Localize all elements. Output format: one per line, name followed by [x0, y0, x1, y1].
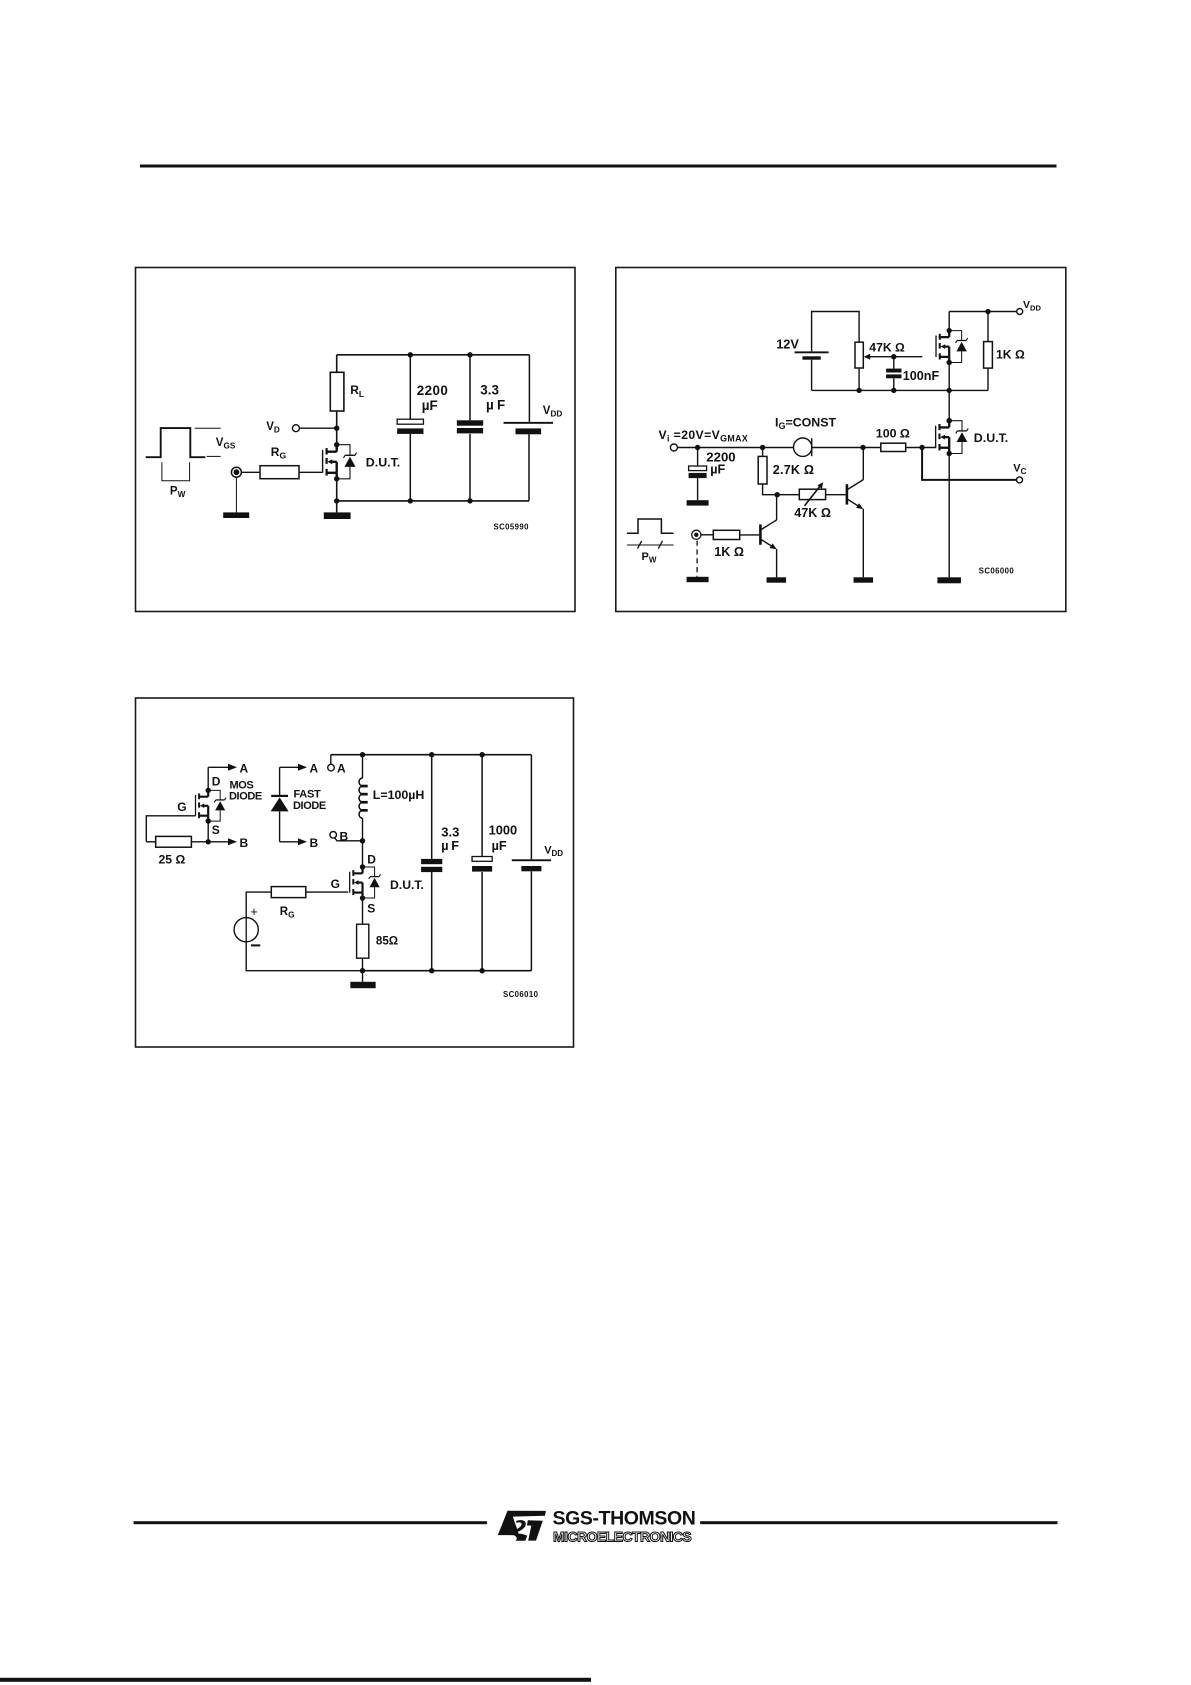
wire right NPN collector [862, 448, 864, 480]
wire A to top rail [330, 755, 332, 765]
ground at MOSFET source [324, 512, 351, 519]
wire 2200uF bottom [409, 434, 411, 501]
wire RL to top rail [336, 355, 338, 373]
svg-text:B: B [240, 836, 249, 850]
label SC06000 [979, 567, 1015, 576]
label G mos-diode [177, 800, 186, 814]
node top rail 1000uF [479, 752, 484, 757]
svg-text:1K Ω: 1K Ω [714, 545, 744, 559]
label PW [170, 486, 186, 500]
MOS diode terminal B arrow [208, 838, 237, 845]
logo text MICROELECTRONICS [553, 1528, 691, 1544]
svg-text:2200: 2200 [417, 383, 448, 398]
node bottom rail 3.3uF [467, 498, 472, 503]
svg-text:D: D [212, 774, 221, 788]
label DIODE fast [293, 800, 326, 812]
node lower drain [947, 418, 952, 423]
bottom return rail [337, 500, 529, 502]
label PW box2 [642, 551, 657, 565]
resistor 100 ohm R3 [881, 443, 906, 451]
label D.U.T. box2 [974, 431, 1008, 445]
terminal A main circuit [328, 764, 335, 771]
ground at right NPN emitter [854, 577, 874, 582]
label uF C2 [486, 398, 505, 413]
node bottom rail 3.3uF box3 [429, 968, 434, 973]
dashed wire connector to ground [696, 541, 698, 577]
node loop rail 100nF [891, 388, 896, 393]
svg-text:100nF: 100nF [903, 369, 940, 383]
svg-text:MICROELECTRONICS: MICROELECTRONICS [553, 1528, 691, 1544]
voltage source generator [234, 918, 258, 942]
resistor RL [330, 372, 344, 411]
svg-text:L=100µH: L=100µH [373, 788, 425, 802]
wire 2.7K top [762, 448, 764, 457]
svg-text:100 Ω: 100 Ω [876, 427, 910, 441]
MOSFET D.U.T. box3 [350, 864, 381, 900]
pulse level dashed marks [195, 428, 221, 456]
variable resistor 47K R5 [799, 482, 825, 506]
svg-text:12V: 12V [776, 336, 799, 351]
wire 2200uF-2 bottom [697, 478, 699, 500]
wire fast diode anode [279, 811, 281, 841]
terminal VD open circle [292, 425, 299, 432]
potentiometer 47K R1 [855, 342, 863, 368]
label D.U.T. [366, 455, 400, 469]
label D.U.T. box3 [390, 878, 424, 892]
label plus [250, 904, 258, 919]
ground at input connector [223, 512, 249, 518]
label A main [337, 762, 346, 776]
label VD [266, 421, 280, 435]
svg-text:1000: 1000 [489, 822, 517, 837]
label D mos-diode [212, 774, 221, 788]
label 47K ohm pot [869, 340, 905, 354]
wire VC tap [922, 448, 1016, 480]
terminal VC open circle [1017, 477, 1023, 483]
resistor 85 ohm [357, 924, 369, 958]
svg-text:SGS-THOMSON: SGS-THOMSON [553, 1508, 696, 1530]
transistor NPN Q4 right [847, 480, 863, 510]
capacitor 1000uF [472, 857, 492, 872]
wire connector to 1K [701, 534, 713, 536]
node bottom rail source [334, 498, 339, 503]
wire inductor bottom [362, 818, 364, 841]
figure box 3 frame (inductive switching circuit) [136, 698, 574, 1047]
wire 3.3uF top [469, 355, 471, 421]
label RG [271, 445, 287, 461]
label D main [367, 853, 376, 867]
svg-text:85Ω: 85Ω [376, 934, 398, 947]
label VDD box3 [544, 844, 563, 858]
capacitor 2200uF C1 [397, 419, 423, 434]
label VC [1013, 463, 1026, 477]
VDD rail [949, 311, 1017, 313]
svg-text:47K Ω: 47K Ω [869, 340, 905, 354]
ground box3 [350, 982, 375, 988]
node loop rail upper source [947, 388, 952, 393]
wire gate to RG box3 [306, 891, 348, 893]
wire source to ground [336, 479, 338, 513]
wire 25ohm to B node [191, 841, 208, 843]
label 3.3 box3 [441, 825, 459, 840]
wire VD to drain node [299, 427, 336, 429]
node top rail cap 3.3 [467, 352, 472, 357]
battery 12V [795, 351, 829, 359]
wire 2200uF-2 top [697, 448, 699, 467]
battery VDD box3 [512, 859, 551, 871]
label 47K ohm var [794, 506, 831, 520]
label Vi input [659, 428, 749, 444]
wire RG to gate [299, 471, 322, 473]
svg-text:D: D [367, 853, 376, 867]
fast diode terminal B arrow [280, 838, 307, 845]
wire right NPN emitter to ground [862, 509, 864, 578]
wire battery bottom box3 [530, 871, 532, 970]
label S main [367, 902, 375, 916]
wire B node to drain [362, 841, 364, 867]
pulse baseline with ticks [627, 541, 674, 549]
wire 3.3uF top box3 [431, 755, 433, 859]
wire 85ohm to ground node [362, 958, 364, 971]
pot wiper arrow [864, 354, 894, 360]
svg-text:B: B [310, 836, 319, 850]
label 2200 [417, 383, 448, 398]
svg-text:A: A [240, 762, 249, 776]
page top rule [140, 165, 1057, 168]
label uF box2 [710, 462, 725, 476]
fast diode terminal A arrow [280, 764, 307, 771]
wire 12V bottom [811, 360, 813, 391]
ground at 2200uF [687, 500, 709, 505]
terminal Vi open circle [670, 444, 677, 451]
node drain-VD junction [334, 426, 339, 431]
label IG=CONST [775, 415, 837, 431]
label 2200 box2 [706, 450, 735, 465]
node input 2.7K [760, 445, 765, 450]
svg-text:G: G [331, 877, 340, 891]
wire 1000uF bottom [481, 872, 483, 971]
node top rail 3.3uF [429, 752, 434, 757]
node B junction [360, 838, 365, 843]
wire 100nF bottom [893, 378, 895, 390]
label uF C1 [422, 398, 438, 413]
label RL [350, 383, 364, 399]
svg-text:2.7K Ω: 2.7K Ω [773, 463, 814, 477]
wire IG to 100ohm [812, 447, 881, 449]
terminal VDD open circle [1017, 309, 1023, 315]
svg-text:DIODE: DIODE [229, 791, 262, 803]
MOSFET D.U.T. Q1 [323, 442, 357, 482]
svg-text:3.3: 3.3 [480, 382, 499, 397]
label VGS [216, 437, 236, 451]
svg-text:25 Ω: 25 Ω [159, 853, 186, 867]
wire 100nF top [893, 357, 895, 369]
node mos-diode source-B [206, 839, 211, 844]
node bottom rail source [360, 968, 365, 973]
svg-text:F: F [497, 398, 505, 413]
label L=100uH [373, 788, 425, 802]
wire 1K bottom [987, 368, 989, 390]
wire 2200uF top [409, 355, 411, 420]
capacitor 3.3uF box3 [421, 859, 442, 872]
wire mos-diode gate loop [146, 816, 195, 842]
wire 3.3uF bottom box3 [431, 872, 433, 971]
svg-text:S: S [212, 823, 220, 837]
wire drain vertical [336, 411, 338, 445]
ground at lower MOSFET source [937, 577, 961, 583]
wire MOSFET source to 85ohm [362, 898, 364, 924]
node wiper 100nF junction [891, 354, 896, 359]
wire ground stub box3 [362, 971, 364, 982]
node input 2200uF [695, 445, 700, 450]
svg-text:S: S [367, 902, 375, 916]
label MOS [230, 779, 254, 791]
label B fast-diode [310, 836, 319, 850]
label RG box3 [280, 906, 295, 920]
inductor L 100uH [359, 778, 368, 818]
ST logo mark [498, 1511, 546, 1541]
bottom rail of 12V loop [812, 389, 988, 391]
svg-text:A: A [337, 762, 346, 776]
label uF 3.3 box3 [441, 839, 459, 853]
label 85 ohm [376, 934, 398, 947]
node top rail cap 2200 [408, 352, 413, 357]
wire lower source to ground [948, 454, 950, 578]
diode FAST DIODE [271, 795, 289, 812]
label B main [340, 830, 349, 844]
capacitor 3.3uF C2 [457, 420, 483, 433]
input connector terminal [231, 467, 241, 477]
wire inductor top [362, 755, 364, 779]
transistor NPN Q3 left [760, 520, 776, 550]
label VDD box2 [1023, 299, 1041, 312]
MOS diode terminal A arrow [208, 764, 237, 771]
pulse input connector box2 [692, 530, 701, 539]
svg-text:µ: µ [441, 839, 448, 853]
figure box 2 frame (gate charge test circuit) [616, 268, 1066, 612]
svg-text:3.3: 3.3 [441, 825, 459, 840]
label A mos-diode [240, 762, 249, 776]
wire connector to RG [242, 471, 261, 473]
transistor lower MOSFET D.U.T. [936, 418, 969, 456]
svg-text:DIODE: DIODE [293, 800, 326, 812]
wire battery top box3 [530, 755, 532, 860]
svg-text:G: G [177, 800, 186, 814]
top supply rail [337, 354, 530, 356]
wire upper drain to VDD rail [948, 312, 950, 331]
label 1000 [489, 822, 517, 837]
wire battery bottom [528, 434, 530, 501]
footer rule left [134, 1521, 487, 1524]
ground at left NPN emitter [767, 577, 787, 582]
capacitor 2200uF C4 [689, 466, 707, 478]
wire mos-diode source to B [207, 821, 209, 842]
node VDD rail 1K [985, 309, 990, 314]
node bottom rail 2200uF [408, 498, 413, 503]
wire pot bottom [858, 368, 860, 390]
wire B to inductor node [335, 838, 363, 841]
resistor 25 ohm [156, 836, 192, 847]
wire battery top [528, 355, 530, 422]
wire 47K to right NPN base [826, 494, 846, 496]
page bottom partial rule [0, 1678, 591, 1682]
wire 25ohm left stub [146, 841, 155, 843]
wire RG to source+ [246, 892, 271, 918]
resistor 1K R6 [713, 530, 739, 539]
wire 1000uF top [481, 755, 483, 857]
node top rail inductor [360, 752, 365, 757]
label SC06010 [503, 990, 539, 999]
svg-text:A: A [310, 762, 319, 776]
wire wiper to upper gate [894, 356, 923, 358]
resistor 2.7K R4 [758, 456, 767, 484]
wire fast diode cathode [279, 767, 281, 795]
wire 1K to left NPN base [740, 534, 759, 536]
wire source to bottom rail [246, 942, 362, 971]
label FAST [294, 789, 321, 801]
label 25 ohm [159, 853, 186, 867]
svg-text:FAST: FAST [294, 789, 321, 801]
svg-text:SC05990: SC05990 [494, 522, 530, 531]
transistor upper MOSFET Q2 [936, 328, 968, 365]
node loop rail pot [856, 388, 861, 393]
svg-text:µ: µ [486, 398, 494, 413]
label A fast-diode [310, 762, 319, 776]
resistor 1K R2 [984, 342, 993, 369]
input rail wire [677, 447, 793, 449]
node bottom rail 1000uF [479, 968, 484, 973]
svg-text:F: F [451, 839, 459, 853]
svg-text:µF: µF [710, 462, 725, 476]
logo text SGS-THOMSON [553, 1508, 696, 1530]
pulse width bracket [162, 462, 190, 481]
svg-text:D.U.T.: D.U.T. [366, 455, 400, 469]
svg-text:SC06000: SC06000 [979, 567, 1015, 576]
wire connector to ground [235, 477, 237, 512]
wire 1K top [987, 312, 989, 342]
wire left NPN collector [776, 495, 778, 520]
wire 12V loop top [812, 312, 860, 352]
label 3.3 [480, 382, 499, 397]
svg-text:D.U.T.: D.U.T. [974, 431, 1008, 445]
svg-text:D.U.T.: D.U.T. [390, 878, 424, 892]
MOS DIODE device [196, 788, 227, 824]
wire upper source to lower drain [948, 364, 950, 420]
svg-text:µF: µF [422, 398, 438, 413]
node lower gate VC junction [919, 445, 924, 450]
input pulse waveform VGS [146, 428, 206, 457]
pulse waveform box2 [627, 519, 674, 533]
label 12V [776, 336, 799, 351]
label minus [251, 944, 260, 946]
label SC05990 [494, 522, 530, 531]
resistor RG box3 [271, 887, 306, 898]
ground at pulse connector [687, 577, 709, 582]
label uF 1000 [492, 839, 507, 853]
wire 100ohm to gate node [906, 447, 937, 449]
top rail box3 [331, 754, 532, 756]
bottom rail box3 [363, 970, 532, 972]
svg-text:µF: µF [492, 839, 507, 853]
svg-text:47K Ω: 47K Ω [794, 506, 831, 520]
svg-text:1K Ω: 1K Ω [996, 347, 1025, 361]
label VDD box1 [543, 405, 563, 419]
label B mos-diode [240, 836, 249, 850]
label 100 ohm [876, 427, 910, 441]
node collector right NPN [860, 445, 865, 450]
label G main [331, 877, 340, 891]
label 100nF [903, 369, 940, 383]
wire left NPN emitter to ground [776, 549, 778, 577]
footer rule right [700, 1521, 1057, 1524]
label 2.7K ohm [773, 463, 814, 477]
resistor RG [260, 466, 299, 479]
label DIODE mos [229, 791, 262, 803]
capacitor 100nF C3 [886, 369, 901, 379]
label 1K ohm R6 [714, 545, 744, 559]
node 47K left [775, 492, 780, 497]
wire 2.7K bottom to node [763, 484, 800, 495]
svg-text:SC06010: SC06010 [503, 990, 539, 999]
label S mos-diode [212, 823, 220, 837]
terminal B main circuit [330, 832, 337, 839]
wire mos-diode drain [207, 767, 209, 790]
figure box 1 frame (switching test circuit) [136, 268, 576, 612]
label 1K ohm R2 [996, 347, 1025, 361]
wire 3.3uF bottom [469, 434, 471, 501]
svg-text:+: + [250, 904, 258, 919]
current source IG circle [794, 438, 812, 456]
battery VDD supply [504, 422, 554, 434]
